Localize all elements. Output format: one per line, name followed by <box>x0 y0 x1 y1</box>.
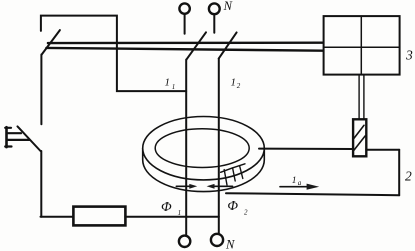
svg-text:1: 1 <box>178 209 182 217</box>
svg-text:a: a <box>298 179 302 187</box>
svg-text:N: N <box>225 238 235 251</box>
svg-text:Φ: Φ <box>227 199 238 214</box>
svg-text:1: 1 <box>172 83 176 91</box>
svg-text:3: 3 <box>405 47 413 62</box>
svg-text:1: 1 <box>292 176 297 186</box>
svg-text:1: 1 <box>165 76 171 88</box>
svg-text:2: 2 <box>237 82 241 90</box>
svg-text:N: N <box>223 0 233 13</box>
svg-text:2: 2 <box>244 209 248 217</box>
svg-text:Φ: Φ <box>161 200 172 215</box>
svg-text:1: 1 <box>231 76 237 88</box>
svg-text:2: 2 <box>405 169 412 184</box>
